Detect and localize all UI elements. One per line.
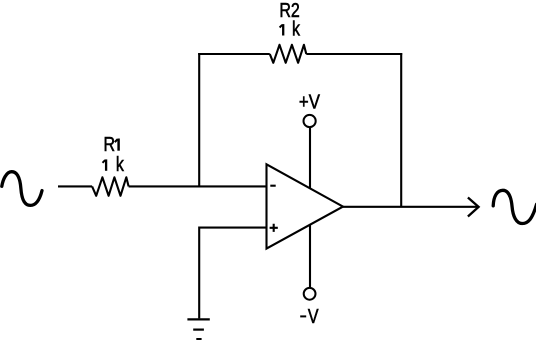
svg-text:k: k — [292, 18, 301, 40]
svg-text:k: k — [116, 153, 125, 175]
svg-text:V: V — [308, 306, 319, 328]
svg-text:R: R — [104, 133, 116, 155]
svg-text:+V: +V — [299, 90, 321, 113]
